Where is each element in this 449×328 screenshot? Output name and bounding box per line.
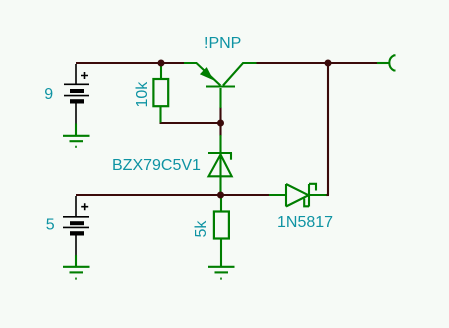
svg-text:10k: 10k	[134, 81, 151, 108]
svg-text:5: 5	[46, 217, 55, 234]
svg-text:9: 9	[44, 86, 53, 103]
svg-text:1N5817: 1N5817	[277, 214, 333, 231]
svg-text:5k: 5k	[193, 220, 210, 238]
svg-text:!PNP: !PNP	[204, 35, 241, 52]
svg-text:BZX79C5V1: BZX79C5V1	[112, 157, 201, 174]
